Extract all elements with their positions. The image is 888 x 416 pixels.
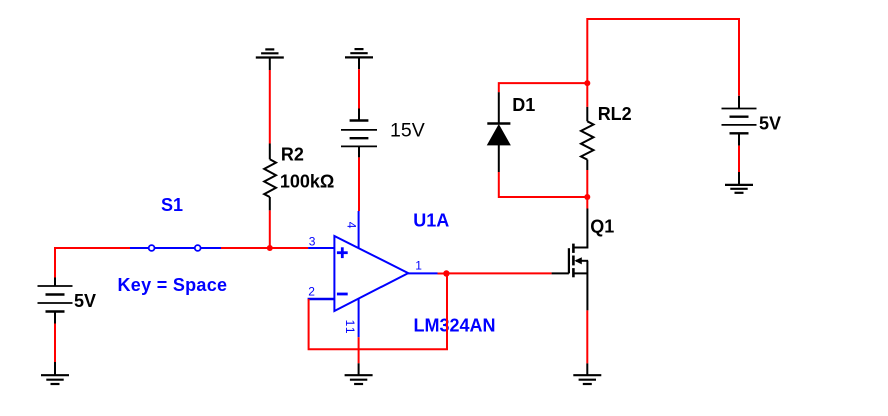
node output junction (443, 270, 449, 276)
wire D1 top rail (499, 83, 588, 92)
battery V3 5V (722, 96, 782, 146)
wire V1 top to switch (55, 248, 130, 278)
svg-text:5V: 5V (759, 114, 781, 134)
wire ground to V2 top (358, 69, 360, 108)
svg-text:1: 1 (415, 259, 422, 273)
wire D1 bottom rail (499, 172, 588, 197)
svg-text:100kΩ: 100kΩ (280, 171, 334, 191)
op-amp U1A (308, 211, 496, 338)
switch S1 (118, 195, 228, 295)
ground below V3 (725, 172, 753, 193)
svg-text:15V: 15V (390, 119, 425, 141)
wire junction up to R2 (269, 210, 271, 248)
wire switch to op-amp pin 3 (221, 247, 308, 249)
svg-text:R2: R2 (281, 145, 304, 165)
svg-text:5V: 5V (74, 291, 96, 311)
wire op-amp output (438, 273, 447, 275)
svg-text:S1: S1 (161, 195, 183, 215)
ground below V1 (41, 362, 69, 384)
node junction switch/R2 (267, 245, 273, 251)
wire R2 top to ground (269, 70, 271, 144)
ground above V2 (flipped) (345, 49, 373, 69)
battery V1 5V (38, 278, 97, 324)
wire RL2 bottom to junction (586, 170, 588, 197)
node bottom junction (584, 194, 590, 200)
resistor R2 (264, 144, 334, 211)
ground below Q1 (573, 363, 601, 384)
svg-text:2: 2 (308, 285, 315, 299)
svg-text:LM324AN: LM324AN (414, 316, 496, 336)
svg-text:3: 3 (309, 234, 316, 248)
wire V2 bottom to op-amp pin 4 (358, 157, 360, 211)
wire top junction to RL2 (586, 83, 588, 107)
svg-text:11: 11 (343, 320, 357, 335)
resistor RL2 (581, 104, 632, 170)
wire Q1 source to ground (586, 310, 588, 363)
svg-text:4: 4 (344, 222, 358, 229)
ground above R2 (flipped) (256, 49, 284, 70)
diode D1 (487, 92, 535, 172)
wire pin 11 to ground (358, 337, 360, 363)
svg-text:Key = Space: Key = Space (118, 275, 228, 295)
svg-text:RL2: RL2 (598, 104, 632, 124)
wire top rail RL2 to V3 (587, 19, 739, 96)
ground below op-amp (345, 363, 373, 384)
wire junction to Q1 drain (586, 197, 588, 209)
battery V2 15V (341, 109, 425, 158)
transistor Q1 (552, 209, 615, 311)
node top junction (584, 80, 590, 86)
svg-text:Q1: Q1 (590, 217, 614, 237)
wire V1 bottom to ground (54, 324, 56, 363)
wire V3 bottom to ground (738, 146, 740, 172)
wire feedback output to pin 2 (309, 274, 447, 350)
wire output to Q1 gate (446, 272, 551, 274)
svg-text:D1: D1 (512, 95, 535, 115)
svg-text:U1A: U1A (413, 211, 449, 231)
